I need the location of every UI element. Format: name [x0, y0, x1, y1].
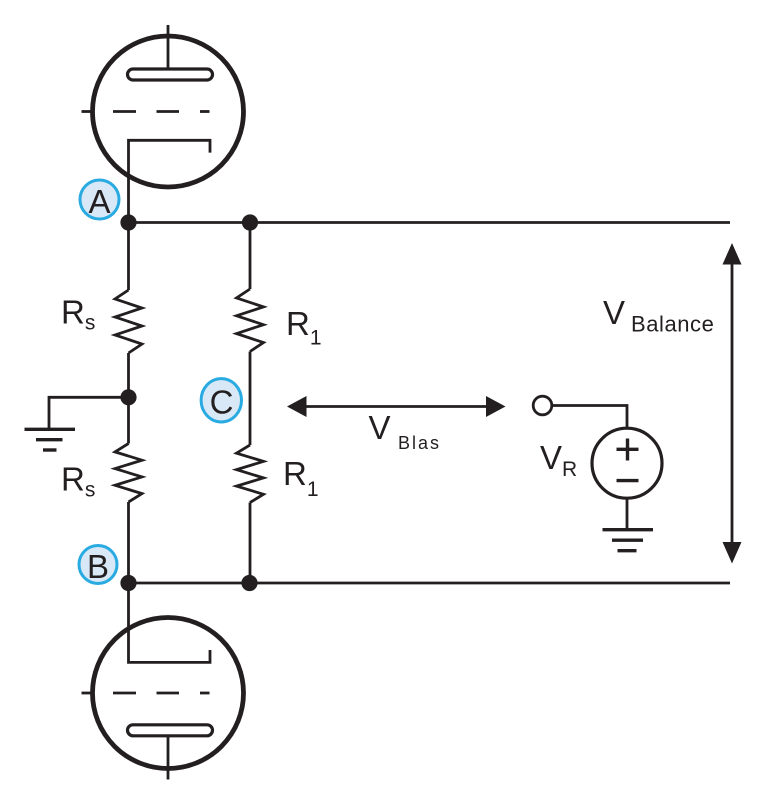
wire: between R1 resistors — [249, 352, 252, 446]
resistor R1 (lower) — [237, 445, 264, 503]
svg-text:Blas: Blas — [398, 433, 441, 453]
wire: source VR to ground — [626, 498, 629, 529]
V1 grid (dashed) — [113, 110, 136, 113]
V_Balance double arrow — [731, 262, 734, 545]
V_Bias double arrow — [303, 405, 489, 408]
svg-text:R1: R1 — [283, 455, 319, 501]
ground (left) — [25, 428, 76, 431]
voltage source VR — [592, 428, 662, 498]
V2 plate (anode) — [128, 725, 213, 736]
svg-text:B: B — [87, 548, 109, 585]
svg-text:VR: VR — [540, 439, 577, 481]
junction dot at node B — [120, 575, 136, 591]
resistor R1 (upper) — [237, 289, 264, 352]
V1 grid lead stub (left) — [82, 110, 94, 113]
open terminal — [533, 396, 552, 415]
junction dot top of R1 branch — [242, 214, 258, 230]
wire: bottom rail from node B to right — [127, 582, 730, 585]
svg-text:A: A — [88, 183, 110, 220]
V2 cathode with lead up to node B — [129, 583, 211, 662]
wire: center tap to ground — [49, 397, 129, 428]
ground (under VR) — [603, 528, 654, 531]
V1 plate lead (top pin) — [167, 25, 170, 70]
wire: Rs (upper) to center tap — [127, 353, 130, 444]
wire: R1 (lower) to node B rail — [249, 503, 252, 584]
wire: Rs (lower) to node B — [127, 502, 130, 583]
resistor Rs (lower) — [115, 444, 142, 503]
vacuum tube V1 (top) envelope — [93, 36, 244, 187]
svg-text:Balance: Balance — [631, 312, 714, 337]
wire: R1 branch top — [249, 223, 252, 290]
junction dot bottom of R1 branch — [241, 575, 257, 591]
node A bubble — [80, 180, 119, 219]
svg-text:V: V — [603, 294, 625, 331]
svg-text:V: V — [369, 409, 391, 446]
V2 plate lead (bottom pin) — [167, 736, 170, 780]
node B bubble — [79, 546, 117, 584]
svg-text:Rs: Rs — [61, 294, 95, 335]
V1 cathode with lead down to node A — [129, 140, 211, 222]
svg-text:R1: R1 — [286, 305, 322, 350]
node C bubble — [201, 379, 241, 422]
V2 grid (dashed) — [113, 692, 136, 695]
V2 grid lead stub (left) — [82, 692, 94, 695]
resistor Rs (upper) — [115, 290, 142, 353]
wire: top rail from node A to right — [127, 221, 730, 224]
V1 plate (anode) — [128, 69, 213, 80]
junction dot at node A — [120, 214, 136, 230]
vacuum tube V2 (bottom) envelope — [93, 618, 244, 769]
VR plus mark — [617, 448, 639, 451]
svg-text:C: C — [210, 384, 234, 421]
junction dot center tap — [120, 389, 136, 405]
wire: node A down to Rs (upper) — [127, 223, 130, 291]
VR minus mark — [617, 479, 639, 482]
wire: terminal to source VR — [552, 406, 627, 429]
svg-text:Rs: Rs — [61, 461, 95, 502]
